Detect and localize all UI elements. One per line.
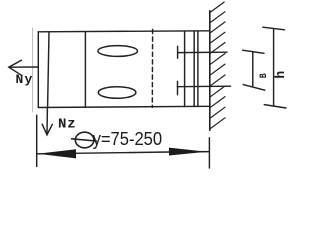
end plate vertical line 2: [193, 31, 195, 106]
svg-text:Nz: Nz: [58, 117, 76, 133]
svg-text:h: h: [273, 71, 288, 79]
section B top tick: [243, 50, 264, 53]
slot hole ellipse lower: [98, 87, 136, 99]
bolt lower head tick: [177, 81, 179, 95]
dimension shaft right: [169, 151, 209, 153]
slot hole ellipse upper: [98, 46, 138, 57]
ell symbol slash: [72, 139, 97, 141]
left extension line: [36, 115, 38, 166]
beam left edge: [37, 32, 39, 108]
section B dimension line: [252, 52, 254, 86]
bolt line upper: [178, 51, 227, 53]
end plate vertical line 1: [184, 31, 186, 106]
Nz force arrow shaft: [46, 108, 48, 135]
section h dimension line: [273, 29, 275, 106]
dimension shaft left: [37, 152, 169, 154]
scan shadow artifact line: [32, 28, 34, 112]
beam top edge: [38, 31, 209, 32]
section h top tick: [263, 27, 285, 30]
bolt line lower: [178, 85, 231, 88]
wall face line: [209, 11, 211, 131]
end plate vertical line 3: [197, 31, 199, 106]
beam inner vertical line 2: [84, 32, 86, 108]
wall hatching: [210, 2, 225, 129]
dimension arrowhead right (filled wedge): [169, 148, 207, 156]
svg-text:y=75-250: y=75-250: [93, 128, 163, 149]
Ny arrowhead: [9, 60, 22, 75]
section B bottom tick: [243, 85, 265, 91]
ell symbol loop: [75, 132, 94, 148]
Nz arrowhead: [42, 124, 52, 135]
section h bottom tick: [264, 105, 286, 108]
beam bottom edge: [38, 106, 209, 107]
dashed embedment line: [151, 29, 153, 107]
bolt upper head tick: [177, 46, 179, 58]
dimension arrowhead left (filled wedge): [37, 149, 76, 158]
svg-text:B: B: [257, 73, 269, 78]
beam inner vertical line 1: [48, 32, 49, 108]
right extension line: [208, 138, 210, 168]
Ny force arrow shaft: [9, 66, 39, 68]
svg-text:Ny: Ny: [16, 72, 34, 87]
